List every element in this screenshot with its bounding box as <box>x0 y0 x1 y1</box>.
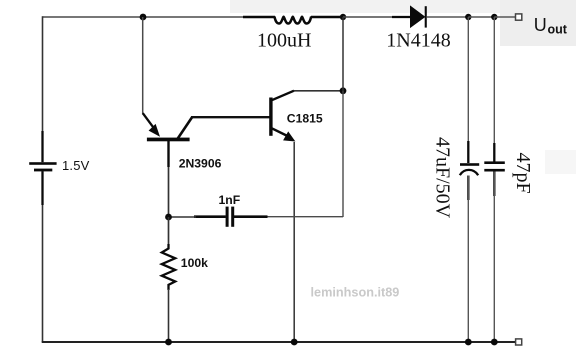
wire: Q1 base down to node E <box>168 140 170 217</box>
node: R1 / ground junction dot <box>165 339 172 346</box>
capacitor C1 curved bottom plate (polarized) <box>460 170 478 175</box>
svg-text:47uF/50V: 47uF/50V <box>432 137 454 219</box>
node: C2 / ground junction dot <box>491 339 498 346</box>
wire: thick lead into C1 top plate <box>467 141 469 163</box>
wire: across to C3 right plate <box>234 216 343 218</box>
transistor Q2 collector slant <box>272 91 294 101</box>
output terminal pad (bottom) <box>516 339 522 345</box>
svg-text:leminhson.it89: leminhson.it89 <box>311 285 400 299</box>
transistor Q1 2N3906 base bar <box>147 138 190 142</box>
wire: Q1 collector to Q2 base <box>191 116 270 118</box>
wire: node E down to resistor R1 <box>168 217 170 247</box>
transistor Q2 emitter arrowhead (NPN, outward) <box>283 131 295 141</box>
node F junction dot (collector / riser from node B) <box>340 87 347 94</box>
wire: riser node B to node F <box>342 17 344 91</box>
node D junction dot (C2 top) <box>491 14 497 20</box>
svg-text:1N4148: 1N4148 <box>386 30 450 52</box>
transistor Q1 collector slant <box>177 117 192 139</box>
svg-text:2N3906: 2N3906 <box>179 156 222 170</box>
wire top rail: thick lead into inductor <box>243 16 275 18</box>
transistor Q2 emitter slant <box>272 128 288 136</box>
wire: node D down to capacitor C2 <box>493 17 495 162</box>
wire: thick lead at C3 left plate <box>194 215 226 218</box>
diode D1 1N4148 triangle <box>411 6 425 27</box>
wire: C2 to bottom rail <box>493 172 495 343</box>
resistor R1 100k zigzag <box>162 244 175 290</box>
svg-text:1.5V: 1.5V <box>62 158 90 173</box>
wire left rail: battery+ up lead <box>42 16 44 162</box>
wire: thick lead at C3 right plate <box>234 215 268 218</box>
wire: node C down to capacitor C1 <box>467 17 469 163</box>
svg-text:1nF: 1nF <box>219 193 241 207</box>
svg-text:out: out <box>548 23 568 37</box>
wire: thick lead out of C1 bottom plate <box>467 176 469 201</box>
wire bottom rail (ground return) <box>42 341 516 343</box>
wire top rail: diode cathode to node C <box>427 16 469 18</box>
capacitor C2 bottom plate <box>484 169 505 172</box>
wire top rail: node C to node D <box>468 16 494 18</box>
transistor Q2 C1815 base bar <box>269 98 272 136</box>
wire: Q1 emitter riser <box>142 17 144 115</box>
wire top rail: node B to diode anode <box>343 16 393 18</box>
wire: Q2 emitter down to bottom rail <box>293 142 295 342</box>
capacitor C3 left plate <box>226 207 229 227</box>
wire: C1 to bottom rail <box>467 176 469 343</box>
node B junction dot (inductor/diode/collector riser) <box>340 14 346 20</box>
transistor Q1 2N3906 emitter slant <box>143 113 156 131</box>
svg-text:C1815: C1815 <box>287 112 323 126</box>
capacitor C2 47pF top plate <box>484 161 505 164</box>
wire: resistor R1 to bottom rail <box>168 289 170 342</box>
node A junction dot (top rail / Q1 emitter riser) <box>140 14 147 21</box>
wire: thick diode anode lead <box>392 16 411 18</box>
battery B1 negative plate (short) <box>34 169 52 172</box>
wire top rail: node A to inductor <box>143 16 244 18</box>
node: Q2 emitter / ground junction dot <box>291 339 298 346</box>
wire: node F down to capacitor C3 level <box>342 91 344 217</box>
capacitor C3 right plate <box>231 207 234 227</box>
wire top rail: thick lead out of inductor to node B <box>311 16 343 18</box>
svg-text:U: U <box>534 15 547 35</box>
node: C1 / ground junction dot <box>465 339 472 346</box>
node E junction dot (Q1 base / C3 / R1) <box>165 214 172 221</box>
svg-text:100k: 100k <box>181 256 208 270</box>
battery B1 positive plate (long) <box>29 162 56 165</box>
wire: thick lead into C2 top plate <box>493 143 495 162</box>
capacitor C1 47uF/50V top plate <box>460 163 479 166</box>
inductor L1 100uH coil <box>274 17 311 24</box>
wire top rail: node D to output terminal <box>494 16 515 18</box>
output terminal pad (top, Uout) <box>516 14 522 20</box>
wire: Q2 collector to node F <box>294 90 344 92</box>
wire top rail: battery+ to node A <box>43 16 144 18</box>
wire: thick lead out of C2 bottom plate <box>493 172 495 197</box>
diode D1 cathode bar <box>425 6 427 27</box>
node C junction dot (C1 top) <box>465 14 471 20</box>
wire: node E to C3 left lead <box>169 216 197 218</box>
transistor Q1 emitter arrowhead (PNP, into base) <box>149 124 160 137</box>
svg-text:100uH: 100uH <box>257 30 311 52</box>
svg-text:47pF: 47pF <box>512 153 534 194</box>
wire left rail: battery- down lead <box>42 171 44 342</box>
